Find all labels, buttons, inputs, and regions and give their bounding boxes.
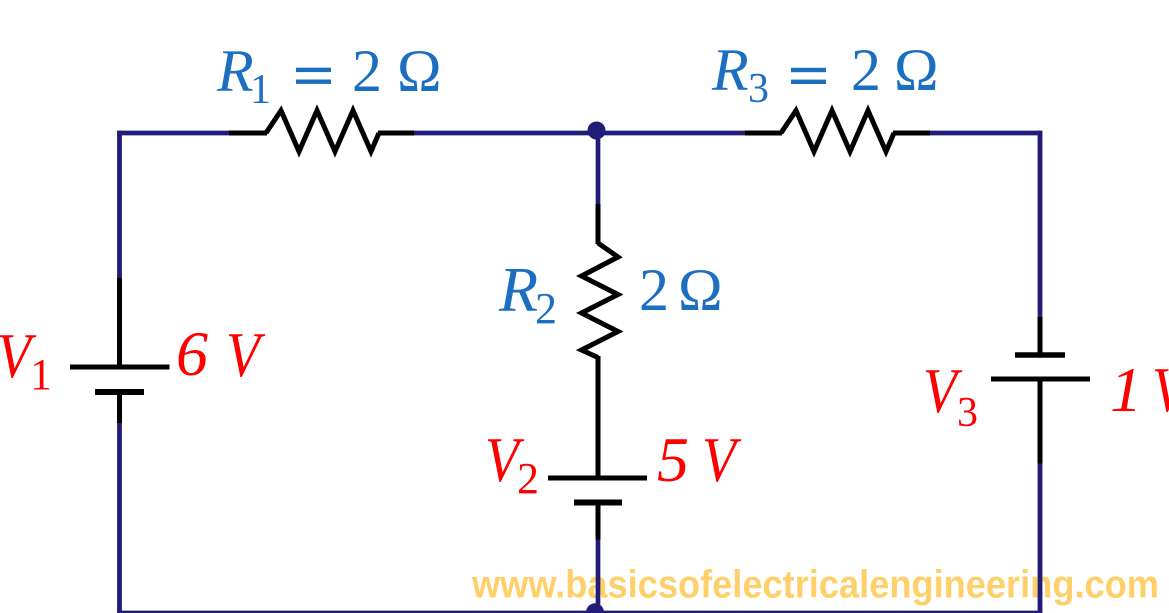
svg-text:R: R xyxy=(216,38,254,104)
svg-text:Ω: Ω xyxy=(397,38,442,104)
wire: R1 left lead (black) xyxy=(229,131,267,136)
wire: right vertical lower (V3 to bottom wire) xyxy=(1038,462,1043,613)
label 6 V (V1 value) xyxy=(176,318,266,390)
svg-text:R: R xyxy=(711,37,749,103)
resistor R2 xyxy=(582,243,619,358)
svg-text:www.basicsofelectricalengineer: www.basicsofelectricalengineering.com xyxy=(471,564,1159,607)
svg-text:3: 3 xyxy=(748,66,769,112)
resistor R1 xyxy=(266,111,379,152)
svg-text:1: 1 xyxy=(30,350,52,399)
wire: R2 bottom lead to V2 (black) xyxy=(596,356,601,478)
svg-text:2: 2 xyxy=(535,284,557,333)
battery V1 long plate xyxy=(70,365,170,370)
label V1 xyxy=(0,320,52,399)
wire: R1 right lead (black) xyxy=(378,131,414,136)
wire: R3 right lead (black) xyxy=(893,131,930,136)
wire: V2 bottom lead (black) xyxy=(596,502,601,540)
wire: left vertical lower (V1 to bottom wire) xyxy=(117,422,122,613)
wire: top-middle horizontal (R1 to node A to R3) xyxy=(412,131,747,136)
label V2 xyxy=(485,424,539,503)
svg-text:1: 1 xyxy=(1110,354,1142,425)
svg-text:5: 5 xyxy=(657,424,689,495)
wire: V1 bottom lead (black) xyxy=(117,392,122,423)
svg-text:V: V xyxy=(1152,354,1169,425)
wire: top-left horizontal (node A to R1) xyxy=(117,131,231,136)
svg-text:2: 2 xyxy=(517,454,539,503)
battery V3 short plate xyxy=(1015,352,1065,358)
wire: middle vertical lower (V2 to node B) xyxy=(596,538,601,611)
node A (top junction dot) xyxy=(588,122,606,140)
wire: left vertical upper (corner to V1) xyxy=(117,131,122,280)
wire: R3 left lead (black) xyxy=(745,131,782,136)
battery V2 long plate xyxy=(548,476,647,481)
svg-text:3: 3 xyxy=(957,390,978,436)
svg-text:2: 2 xyxy=(352,38,382,104)
wire: top-right horizontal (R3 to right corner) xyxy=(928,131,1042,136)
svg-text:2: 2 xyxy=(851,37,881,103)
svg-text:Ω: Ω xyxy=(894,37,939,103)
resistor R3 xyxy=(781,111,894,152)
svg-text:6: 6 xyxy=(176,318,208,389)
battery V3 long plate xyxy=(991,377,1090,382)
label R1 = 2 ohm xyxy=(216,38,442,113)
node B (bottom junction dot) xyxy=(586,603,604,613)
label 2 ohm (R2 value) xyxy=(639,257,723,323)
battery V2 short plate xyxy=(574,500,622,506)
svg-text:V: V xyxy=(226,319,266,390)
wire: V1 top lead (black) xyxy=(117,278,122,367)
label 1 V (V3 value) xyxy=(1110,354,1169,425)
svg-text:1: 1 xyxy=(250,67,271,113)
label V3 xyxy=(923,355,978,436)
svg-text:R: R xyxy=(498,254,538,325)
wire: bottom horizontal xyxy=(117,611,1042,613)
wire: V3 bottom lead (black) xyxy=(1038,379,1043,464)
battery V1 short plate xyxy=(95,389,144,395)
svg-text:Ω: Ω xyxy=(678,257,723,323)
wire: middle vertical upper (node A to R2) xyxy=(596,139,601,206)
label R2 xyxy=(498,254,557,333)
wire: right vertical upper (corner to V3) xyxy=(1038,131,1043,319)
svg-text:V: V xyxy=(702,424,742,495)
svg-text:2: 2 xyxy=(639,257,669,323)
wire: R2 top lead (black) xyxy=(596,204,601,244)
label R3 = 2 ohm xyxy=(711,37,939,112)
label 5 V (V2 value) xyxy=(657,424,742,495)
wire: V3 top lead (black) xyxy=(1038,317,1043,355)
